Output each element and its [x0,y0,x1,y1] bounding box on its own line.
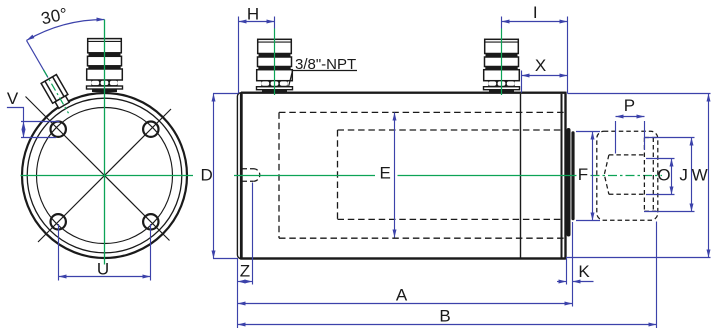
cylinder body fill [241,93,566,259]
dimension I line [502,21,568,23]
bolt hole bottom-right [143,214,158,229]
dimension K arrow left [557,281,567,283]
inclined hex plug at 30 degrees [41,75,71,110]
svg-text:A: A [396,286,408,305]
dimension D line [213,94,215,259]
left lower extension line [237,259,239,328]
dimension K arrow right and tail [573,281,594,283]
dimension V extension top [21,121,60,123]
bore outer dashed left [278,112,280,238]
coupler 1 on cylinder [257,39,293,92]
cylinder body left inner line [241,94,243,258]
svg-text:H: H [247,5,259,24]
dimension W line [708,94,710,258]
plunger saddle plate [571,131,574,220]
cylinder body left end face line [237,93,241,259]
coupler 2 centerline green [501,29,503,96]
dimension I extension left blue [501,17,503,29]
dimension X extension left [521,71,523,93]
left port thread dashed [243,169,260,182]
bore outer dashed top [279,111,564,113]
dimension P extension left [615,121,617,154]
svg-text:J: J [679,166,688,185]
svg-text:I: I [533,3,538,22]
dimension A line [238,303,573,305]
svg-text:K: K [578,262,590,281]
dimension O extension top [646,158,675,160]
bolt hole top-left [51,122,66,137]
end view outer circle [22,93,187,258]
dimension P extension right [644,121,646,150]
svg-text:F: F [578,165,588,184]
dimension B extension right [656,222,658,329]
end view horizontal centerline [21,175,194,177]
dimension V extension bottom [21,137,56,139]
dimension D extension top [213,93,238,95]
svg-text:U: U [97,260,109,279]
side view centerline [234,175,375,177]
dimension A extension right [572,222,574,307]
svg-text:E: E [380,164,391,183]
bore inner dashed left [337,130,339,219]
coupler 2 on cylinder [484,39,520,92]
dimension V line [23,122,25,138]
dimension 30 degrees radial line [27,40,49,77]
end view diagonal line BL-TR [38,109,171,242]
plunger hex boss dashed [604,155,644,194]
dimension H extension right blue [274,17,276,29]
plunger end view inner rect dashed [644,138,656,212]
plunger plate outer [567,128,571,237]
bore outer dashed bottom [279,237,564,239]
bore inner dashed bottom [338,218,565,220]
NPT underline [293,70,358,72]
dimension J extension bottom [644,211,695,213]
end view coupler [87,39,123,92]
dimension Z line [238,281,253,283]
dimension X line [522,75,568,77]
NPT leader line [289,71,293,88]
dimension F extension bottom [576,220,600,222]
30 degree port centerline [44,70,69,113]
svg-text:X: X [535,56,546,75]
dimension O extension bottom [646,194,675,196]
dimension U line [59,276,151,278]
dimension J extension top [644,137,695,139]
dimension H line [239,21,275,23]
dimension Z extension right [252,183,254,285]
dimension K extension left [566,259,568,285]
end view bolt circle [37,108,173,244]
dimension W extension bottom [566,257,711,259]
cylinder cap left line [520,94,522,258]
svg-text:B: B [439,307,450,326]
dimension V bracket [7,108,24,122]
dimension F extension top [576,131,600,133]
svg-text:Z: Z [240,262,250,281]
dimension P line [616,116,645,118]
svg-text:W: W [692,166,708,185]
dimension O line [671,159,673,195]
dimension H extension left [238,17,240,94]
dimension 30 degrees arc [27,20,105,41]
svg-text:O: O [657,166,670,185]
svg-text:D: D [200,166,212,185]
cylinder cap right inner line [561,94,563,258]
end view vertical centerline [104,20,106,265]
dimension U extension left [58,224,60,281]
dimension W extension top [568,93,711,95]
bolt hole top-right [143,122,158,137]
bolt hole bottom-left [51,214,66,229]
cylinder body outline [241,93,566,259]
dimension F line [592,132,594,221]
coupler 1 centerline green [274,29,276,96]
dimension U extension right [150,224,152,281]
end view diagonal line TL-BR [26,97,170,241]
bore inner dashed top [338,129,565,131]
dimension I extension right [567,17,569,94]
dimension B line [238,324,657,326]
dimension D extension bottom [213,258,238,260]
svg-text:V: V [7,89,19,108]
plunger end view outer dashed [597,131,658,220]
end view rim inner circle [27,98,182,253]
dimension E line [394,113,396,238]
side view centerline through plunger end view [591,175,663,177]
dimension J line [691,138,693,212]
svg-text:P: P [624,96,635,115]
side view centerline right part [398,175,577,177]
